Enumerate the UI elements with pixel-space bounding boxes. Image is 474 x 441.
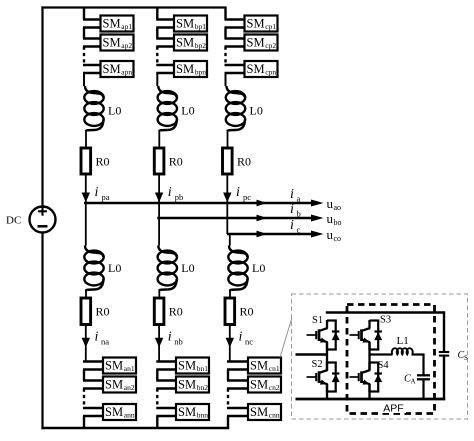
svg-text:cpn: cpn bbox=[265, 68, 276, 77]
svg-text:R0: R0 bbox=[96, 305, 110, 319]
svg-text:bnn: bnn bbox=[197, 411, 209, 420]
svg-text:bpn: bpn bbox=[195, 68, 207, 77]
svg-text:bn1: bn1 bbox=[197, 364, 209, 373]
svg-text:APF: APF bbox=[383, 403, 403, 415]
svg-text:c: c bbox=[297, 225, 301, 235]
svg-text:SM: SM bbox=[105, 377, 123, 391]
svg-text:i: i bbox=[236, 185, 240, 200]
svg-text:S4: S4 bbox=[378, 360, 390, 371]
svg-text:SM: SM bbox=[105, 405, 123, 419]
svg-text:pa: pa bbox=[102, 192, 110, 202]
svg-text:bn2: bn2 bbox=[197, 383, 209, 392]
svg-text:SM: SM bbox=[176, 62, 194, 76]
svg-text:nc: nc bbox=[245, 336, 253, 346]
svg-text:i: i bbox=[239, 330, 243, 345]
svg-text:an1: an1 bbox=[124, 364, 135, 373]
svg-text:ap1: ap1 bbox=[121, 22, 132, 31]
svg-text:L0: L0 bbox=[181, 104, 194, 118]
svg-text:SM: SM bbox=[176, 35, 194, 49]
svg-text:R0: R0 bbox=[237, 155, 251, 169]
svg-text:R0: R0 bbox=[169, 305, 183, 319]
svg-text:R0: R0 bbox=[169, 155, 183, 169]
svg-text:apn: apn bbox=[121, 68, 132, 77]
svg-text:A: A bbox=[411, 378, 416, 386]
svg-text:cp2: cp2 bbox=[265, 41, 276, 50]
svg-text:DC: DC bbox=[6, 215, 21, 227]
svg-text:bp2: bp2 bbox=[195, 41, 207, 50]
svg-text:i: i bbox=[290, 187, 294, 202]
svg-text:na: na bbox=[101, 336, 109, 346]
svg-text:SM: SM bbox=[178, 377, 196, 391]
svg-text:L1: L1 bbox=[397, 335, 409, 347]
svg-text:i: i bbox=[95, 330, 99, 345]
svg-text:S3: S3 bbox=[380, 315, 391, 326]
svg-text:u: u bbox=[327, 227, 334, 242]
svg-text:b: b bbox=[297, 209, 301, 219]
svg-text:ann: ann bbox=[124, 411, 135, 420]
svg-text:SM: SM bbox=[247, 35, 265, 49]
svg-text:nb: nb bbox=[174, 336, 183, 346]
svg-text:L0: L0 bbox=[181, 261, 194, 275]
svg-text:pb: pb bbox=[175, 192, 184, 202]
svg-text:L0: L0 bbox=[108, 104, 121, 118]
svg-text:R0: R0 bbox=[240, 305, 254, 319]
svg-text:pc: pc bbox=[243, 192, 251, 202]
svg-text:i: i bbox=[290, 202, 294, 217]
svg-text:ao: ao bbox=[334, 203, 342, 212]
svg-text:S2: S2 bbox=[312, 359, 323, 370]
svg-text:cn2: cn2 bbox=[269, 383, 280, 392]
svg-text:S: S bbox=[464, 354, 468, 362]
svg-text:SM: SM bbox=[250, 377, 268, 391]
svg-text:an2: an2 bbox=[124, 383, 135, 392]
svg-text:a: a bbox=[297, 194, 301, 204]
svg-text:bo: bo bbox=[334, 218, 342, 227]
svg-text:i: i bbox=[95, 185, 99, 200]
svg-text:SM: SM bbox=[103, 35, 121, 49]
svg-text:SM: SM bbox=[176, 16, 194, 30]
svg-text:SM: SM bbox=[105, 358, 123, 372]
svg-text:ap2: ap2 bbox=[121, 41, 132, 50]
svg-text:SM: SM bbox=[247, 62, 265, 76]
svg-text:SM: SM bbox=[250, 405, 268, 419]
svg-text:L0: L0 bbox=[250, 104, 263, 118]
svg-text:co: co bbox=[334, 234, 342, 243]
svg-text:SM: SM bbox=[178, 405, 196, 419]
svg-text:SM: SM bbox=[178, 358, 196, 372]
svg-text:cp1: cp1 bbox=[265, 22, 276, 31]
svg-text:L0: L0 bbox=[108, 261, 121, 275]
svg-text:SM: SM bbox=[103, 62, 121, 76]
svg-text:SM: SM bbox=[247, 16, 265, 30]
svg-text:S1: S1 bbox=[312, 315, 323, 326]
svg-text:u: u bbox=[327, 211, 334, 226]
svg-text:SM: SM bbox=[250, 358, 268, 372]
svg-text:i: i bbox=[290, 218, 294, 233]
svg-text:cnn: cnn bbox=[269, 411, 280, 420]
svg-text:bp1: bp1 bbox=[195, 22, 207, 31]
svg-text:u: u bbox=[327, 196, 334, 211]
svg-text:SM: SM bbox=[103, 16, 121, 30]
svg-text:R0: R0 bbox=[96, 155, 110, 169]
svg-text:i: i bbox=[168, 185, 172, 200]
svg-text:L0: L0 bbox=[252, 261, 265, 275]
svg-text:cn1: cn1 bbox=[269, 364, 280, 373]
svg-text:i: i bbox=[168, 330, 172, 345]
